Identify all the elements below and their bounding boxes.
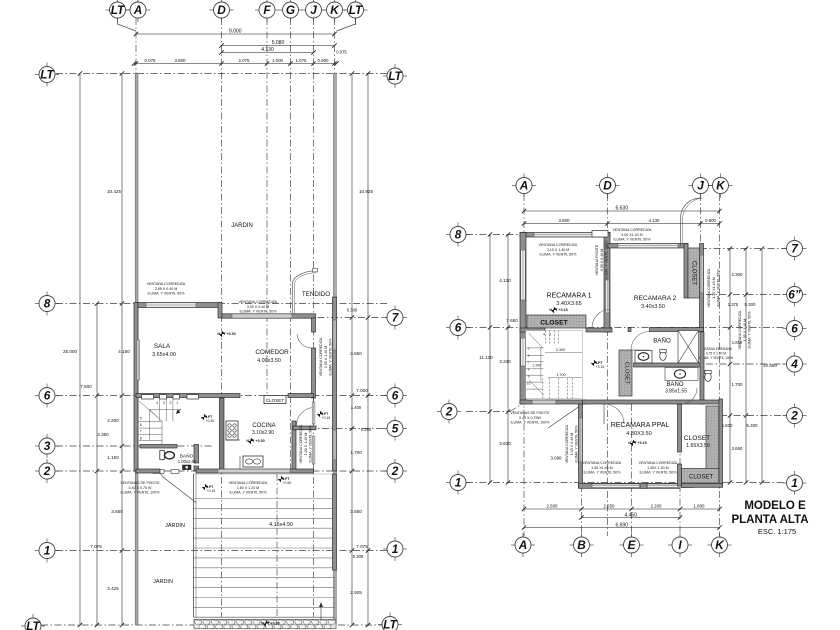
- stairwell west window: [521, 338, 526, 366]
- svg-text:N.PT +0.30: N.PT +0.30: [246, 439, 264, 443]
- svg-text:4: 4: [543, 333, 545, 337]
- axis line 2: [56, 470, 387, 472]
- svg-text:JARDIN: JARDIN: [231, 223, 253, 229]
- svg-text:1: 1: [176, 401, 178, 405]
- kitchen counter: [239, 456, 241, 471]
- axis bubble LT west: [35, 63, 59, 87]
- axis5 stub wall: [293, 426, 316, 430]
- axis bubble I bottom: [668, 533, 692, 557]
- level mark N.PT: [201, 414, 213, 420]
- axis bubble LT southeast: [378, 613, 402, 630]
- high windows over stair: [142, 395, 154, 399]
- svg-text:B: B: [577, 538, 586, 552]
- svg-text:10.650: 10.650: [763, 363, 777, 368]
- axis bubble 1 east (alta): [783, 471, 807, 495]
- svg-text:3.800: 3.800: [175, 58, 187, 63]
- toilet lower bath: [705, 373, 711, 382]
- svg-text:3.630: 3.630: [499, 441, 511, 446]
- axis bubble 2 (alta): [437, 400, 461, 424]
- axis bubble K top: [709, 174, 733, 198]
- balcony arc leader: [681, 198, 701, 246]
- axis line 6 (right plan): [466, 327, 787, 329]
- svg-text:LT: LT: [383, 618, 398, 630]
- axis line B (right plan): [581, 404, 583, 536]
- svg-text:3.650: 3.650: [350, 351, 362, 356]
- axis-6 wall east part: [288, 394, 314, 398]
- axis6 wall c stub: [628, 328, 631, 332]
- axis line 5: [295, 428, 387, 430]
- axis bubble K bottom: [708, 533, 732, 557]
- east window b: [312, 436, 315, 464]
- svg-text:6”: 6”: [788, 288, 801, 302]
- level mark N.PT +3.15: [549, 307, 567, 313]
- svg-text:A: A: [133, 3, 143, 17]
- svg-text:2: 2: [43, 464, 51, 478]
- level mark N.PT +0.30: [246, 438, 264, 444]
- axis bubble 2 east: [383, 459, 407, 483]
- east window 1.35x1.40: [700, 255, 703, 293]
- axis line J: [313, 18, 315, 617]
- svg-text:3.330: 3.330: [499, 359, 511, 364]
- svg-text:CLOSET: CLOSET: [684, 435, 710, 442]
- axis line 1: [56, 550, 387, 552]
- south wall w: [136, 469, 160, 473]
- kitchen sink: [243, 456, 263, 467]
- closet ppal east hatch: [706, 406, 719, 483]
- dimension: [522, 507, 722, 511]
- left dimension lines (right plan): [488, 232, 492, 484]
- axis bubble 6: [35, 384, 59, 408]
- sala window 2.65x0.40: [146, 303, 196, 307]
- svg-text:LT: LT: [40, 68, 55, 82]
- recamara1 north window: [534, 233, 598, 237]
- entry door leaf: [163, 477, 196, 503]
- svg-text:1.700: 1.700: [557, 373, 566, 377]
- svg-text:0.900: 0.900: [318, 58, 330, 63]
- axis bubble 7: [383, 306, 407, 330]
- level mark N.PT: [591, 360, 604, 366]
- axis bubble G: [279, 0, 303, 22]
- right dimension lines (right plan): [728, 246, 732, 484]
- axis bubble 6 (alta): [446, 316, 470, 340]
- axis line 3: [56, 445, 212, 447]
- svg-text:1.400: 1.400: [351, 405, 362, 410]
- svg-text:LT: LT: [349, 3, 364, 17]
- svg-text:8: 8: [455, 228, 462, 242]
- axis6 wall b: [586, 328, 612, 332]
- axis line 2b (right plan): [720, 415, 787, 417]
- svg-text:4: 4: [156, 401, 158, 405]
- svg-text:7.075: 7.075: [90, 544, 102, 549]
- axis bubble 2 east (alta): [783, 404, 807, 428]
- comedor window 3.00x0.40: [232, 314, 292, 318]
- deck east wall: [333, 474, 337, 570]
- axis bubble J: [302, 0, 326, 22]
- cocina west wall (D): [220, 398, 225, 471]
- svg-text:7.000: 7.000: [356, 388, 368, 393]
- wall jog: [218, 303, 222, 319]
- axis line K (right plan): [719, 194, 721, 536]
- axis line LT bottom: [41, 624, 387, 626]
- svg-text:2: 2: [170, 401, 172, 405]
- axis line 2 (right plan): [466, 411, 510, 413]
- level mark N.PT: [202, 484, 214, 490]
- partition window: [606, 280, 610, 313]
- axis bubble LT east: [383, 64, 407, 88]
- axis bubble A: [126, 0, 150, 22]
- tendido arc wall: [292, 271, 316, 315]
- svg-text:0.300: 0.300: [556, 348, 565, 352]
- svg-text:4.130: 4.130: [499, 278, 511, 283]
- south window 1: [592, 484, 640, 488]
- axis line I (right plan): [679, 404, 681, 536]
- svg-text:+0.15: +0.15: [207, 489, 216, 493]
- small wall box above rec2: [592, 231, 608, 238]
- pisote windows south wall: [153, 470, 164, 474]
- axis6 wall c: [650, 328, 704, 332]
- svg-text:2.075: 2.075: [239, 58, 251, 63]
- svg-text:A: A: [519, 179, 529, 193]
- svg-text:0.300: 0.300: [353, 554, 364, 559]
- svg-text:LT: LT: [111, 3, 126, 17]
- axis bubble 8 (alta): [446, 223, 470, 247]
- axis bubble 6 east: [383, 384, 407, 408]
- leader K-LT to lot corner: [337, 18, 356, 31]
- house east wall (J) lower: [312, 348, 316, 398]
- svg-text:7: 7: [140, 430, 142, 434]
- svg-text:MODELO E: MODELO E: [744, 500, 806, 512]
- svg-text:10.425: 10.425: [107, 189, 121, 194]
- hall closet hatch: [619, 350, 632, 396]
- axis line G: [290, 18, 292, 471]
- axis bubble J top: [689, 174, 713, 198]
- svg-text:5.500: 5.500: [722, 423, 734, 428]
- svg-text:N.PT +3.15: N.PT +3.15: [628, 441, 646, 445]
- east window a: [312, 402, 315, 424]
- svg-text:E: E: [628, 538, 637, 552]
- leader LT-A to lot corner: [118, 18, 137, 31]
- svg-text:1: 1: [44, 544, 51, 558]
- south window 1.60x1.20: [218, 469, 290, 472]
- axis bubble 1 east: [383, 537, 407, 561]
- svg-text:ESC. 1:175: ESC. 1:175: [758, 527, 796, 536]
- svg-text:SALA: SALA: [154, 343, 171, 350]
- svg-text:LT: LT: [26, 619, 41, 630]
- svg-text:10: 10: [527, 382, 531, 386]
- svg-text:0.900: 0.900: [705, 218, 717, 223]
- svg-text:K: K: [716, 179, 726, 193]
- level mark N.PT: [317, 411, 329, 417]
- closet ppal west wall b: [678, 464, 682, 486]
- svg-text:BAÑO: BAÑO: [666, 381, 683, 388]
- deck west edge: [193, 474, 195, 617]
- recppal west window: [579, 418, 582, 462]
- door swing rec1: [592, 310, 610, 328]
- closet south exterior wall: [682, 483, 723, 487]
- tendido window b: [333, 430, 336, 460]
- partition rec1/rec2: [604, 233, 610, 333]
- west fence window: [137, 340, 140, 380]
- svg-text:1.700: 1.700: [732, 382, 744, 387]
- svg-text:2: 2: [391, 464, 399, 478]
- svg-text:JARDIN: JARDIN: [165, 523, 185, 529]
- svg-text:PLANTA ALTA: PLANTA ALTA: [731, 514, 808, 526]
- leader axis 2 to wall: [510, 405, 521, 412]
- shower hatch: [678, 331, 699, 364]
- axis line D: [221, 18, 223, 617]
- svg-text:K: K: [330, 3, 340, 17]
- axis line 1 (right plan): [466, 482, 787, 484]
- dimension 5.080: [219, 40, 336, 48]
- lot east wall segment: [333, 297, 337, 471]
- svg-text:1.200: 1.200: [532, 364, 541, 368]
- south wall mullion: [640, 483, 647, 488]
- house east wall (J) upper: [312, 318, 316, 332]
- bath north wall: [140, 445, 177, 449]
- axis bubble 5: [383, 417, 407, 441]
- axis bubble LT: [106, 0, 130, 22]
- svg-text:CLOSET: CLOSET: [540, 320, 568, 327]
- svg-text:6: 6: [140, 423, 142, 427]
- dimension: [522, 221, 722, 225]
- axis bubble 4 (alta): [783, 352, 807, 376]
- terrace deck boards: [194, 474, 335, 617]
- level mark N.PT +3.15: [628, 440, 646, 446]
- axis line E (right plan): [631, 404, 633, 536]
- axis bubble K: [323, 0, 347, 22]
- svg-text:1.075: 1.075: [296, 58, 308, 63]
- svg-text:5.300: 5.300: [747, 423, 759, 428]
- svg-text:2: 2: [445, 405, 453, 419]
- svg-text:N.PT +0.30: N.PT +0.30: [217, 332, 235, 336]
- svg-text:2.200: 2.200: [651, 504, 663, 509]
- svg-text:4.150: 4.150: [118, 349, 130, 354]
- stairwell south wall: [520, 400, 586, 404]
- bath mid wall: [634, 363, 701, 367]
- axis line 8 (right plan): [466, 234, 524, 236]
- svg-text:CLOSET: CLOSET: [266, 398, 285, 403]
- svg-text:11.130: 11.130: [479, 355, 493, 360]
- svg-text:3: 3: [163, 401, 165, 405]
- axis2 wall east part: [583, 400, 721, 404]
- svg-text:8: 8: [44, 297, 51, 311]
- svg-text:25.000: 25.000: [63, 349, 77, 354]
- svg-text:JARDIN: JARDIN: [153, 579, 173, 585]
- axis bubble D: [210, 0, 234, 22]
- svg-text:3.800: 3.800: [559, 218, 571, 223]
- level mark N.PT: [278, 476, 290, 482]
- door swing closet ppal: [682, 388, 698, 404]
- axis line A: [135, 18, 137, 74]
- svg-text:3.40x3.50: 3.40x3.50: [641, 304, 665, 310]
- svg-text:1.150: 1.150: [107, 455, 119, 460]
- svg-text:3.65x4.00: 3.65x4.00: [152, 352, 176, 358]
- axis line 4 (right plan): [706, 363, 787, 365]
- svg-text:+3.15: +3.15: [596, 365, 605, 369]
- east wall mid: [700, 332, 704, 404]
- svg-text:6: 6: [392, 389, 399, 403]
- recamara2 north window: [618, 244, 678, 248]
- axis bubble 3: [35, 434, 59, 458]
- svg-text:0.250: 0.250: [361, 427, 372, 432]
- recppal west wall: [579, 404, 583, 488]
- stove: [226, 421, 238, 440]
- level mark N.PT +0.30: [217, 331, 235, 337]
- svg-text:3.650: 3.650: [111, 509, 123, 514]
- south window 2: [647, 484, 694, 488]
- svg-text:J: J: [310, 3, 317, 17]
- svg-text:5: 5: [140, 417, 142, 421]
- svg-text:G: G: [286, 3, 295, 17]
- svg-text:1: 1: [455, 476, 462, 490]
- recppal south wall: [579, 483, 681, 488]
- svg-text:2.250: 2.250: [604, 504, 616, 509]
- svg-text:+0.90: +0.90: [283, 481, 292, 485]
- svg-text:4.15x4.90: 4.15x4.90: [269, 522, 293, 528]
- door swing recppal: [604, 404, 624, 424]
- svg-text:6: 6: [455, 321, 462, 335]
- bath east wall lower: [194, 466, 199, 471]
- axis line A (right plan): [523, 194, 525, 536]
- deck joint dashed line: [276, 474, 278, 617]
- sala north wall: [136, 303, 221, 308]
- bath east wall upper: [194, 445, 199, 464]
- tendido window a: [333, 320, 336, 350]
- axis line F: [266, 18, 268, 396]
- svg-text:4.30X3.50: 4.30X3.50: [626, 431, 652, 437]
- east wall upper: [700, 244, 704, 333]
- svg-text:3.350: 3.350: [97, 432, 109, 437]
- axis line LT top (left plan): [56, 73, 387, 75]
- axis bubble D top: [596, 174, 620, 198]
- recamara1 north wall: [520, 233, 610, 238]
- svg-text:6.630: 6.630: [615, 206, 628, 212]
- svg-text:RECAMARA 2: RECAMARA 2: [634, 295, 677, 302]
- door leaf stair: [548, 405, 582, 429]
- washbasin lower bath: [665, 368, 698, 381]
- svg-text:4.130: 4.130: [261, 47, 274, 53]
- svg-text:CLOSET: CLOSET: [624, 362, 630, 385]
- svg-text:6.690: 6.690: [615, 522, 628, 528]
- dimension 6.630: [522, 206, 722, 214]
- svg-text:3.85x1.55: 3.85x1.55: [665, 389, 687, 395]
- svg-text:8: 8: [140, 436, 142, 440]
- upper west wall: [520, 233, 526, 405]
- axis-6 wall west part: [136, 394, 240, 398]
- left dimension lines: [78, 71, 82, 627]
- axis bubble 2: [35, 459, 59, 483]
- svg-text:7.500: 7.500: [80, 384, 92, 389]
- axis bubble 1: [35, 539, 59, 563]
- door swing comedor-tendido: [297, 334, 312, 348]
- staircase (ground floor): [139, 399, 181, 444]
- svg-text:+0.15: +0.15: [322, 416, 331, 420]
- toilet (ground bath): [160, 451, 165, 460]
- svg-text:J: J: [697, 179, 704, 193]
- svg-text:TENDIDO: TENDIDO: [302, 291, 330, 298]
- stone path: [194, 619, 336, 629]
- axis line 8: [56, 303, 387, 305]
- level mark N.PT +0.00: [261, 620, 279, 626]
- axis line 7 (right plan): [700, 248, 787, 250]
- axis bubble A top: [512, 174, 536, 198]
- axis bubble 6 east (alta): [783, 317, 807, 341]
- west window: [521, 250, 526, 300]
- svg-text:LT: LT: [388, 69, 403, 83]
- svg-text:9.000: 9.000: [229, 29, 242, 35]
- axis bubble A bottom: [511, 533, 535, 557]
- axis line 6b (right plan): [706, 294, 787, 296]
- svg-text:2.200: 2.200: [107, 418, 119, 423]
- svg-text:CLOSET: CLOSET: [691, 261, 697, 285]
- axis line J (right plan): [700, 194, 702, 248]
- svg-text:3.090: 3.090: [551, 456, 563, 461]
- svg-text:3.425: 3.425: [107, 586, 119, 591]
- svg-text:1.700: 1.700: [350, 450, 362, 455]
- dimension 4.450: [579, 512, 682, 519]
- dimension 4.130: [219, 47, 315, 55]
- svg-text:10.925: 10.925: [359, 189, 373, 194]
- axis bubble 1 (alta): [446, 471, 470, 495]
- svg-text:RECAMARA 1: RECAMARA 1: [546, 293, 591, 300]
- staircase (upper floor): [526, 331, 583, 399]
- svg-text:0.300: 0.300: [347, 307, 358, 312]
- axis bubble E bottom: [620, 533, 644, 557]
- east wall lower: [719, 399, 723, 487]
- toilet upper bath: [660, 352, 666, 361]
- dimension: [132, 61, 339, 65]
- svg-text:K: K: [715, 538, 725, 552]
- closet box label (cocina): [264, 396, 286, 404]
- svg-text:+0.30: +0.30: [206, 419, 215, 423]
- door swing banho top: [631, 332, 650, 351]
- svg-text:F: F: [263, 3, 271, 17]
- south wall e: [196, 469, 314, 473]
- recamara2 north wall: [608, 244, 688, 249]
- svg-text:BAÑO: BAÑO: [653, 338, 671, 345]
- door swing comedor-cocina: [296, 408, 313, 426]
- dimension 9.000: [134, 29, 337, 37]
- closet ppal south hatch: [682, 469, 720, 484]
- svg-text:7.650: 7.650: [506, 318, 518, 323]
- svg-text:4: 4: [790, 357, 798, 371]
- stair arrow to deck: [320, 603, 322, 619]
- axis bubble B bottom: [570, 533, 594, 557]
- lot boundary right wall: [334, 74, 337, 626]
- axis line 6: [56, 395, 387, 397]
- cocina east wall: [292, 421, 296, 471]
- closet1 west wall: [684, 244, 688, 299]
- svg-text:3: 3: [549, 333, 551, 337]
- svg-text:2: 2: [790, 409, 798, 423]
- svg-text:6: 6: [791, 322, 798, 336]
- axis bubble 6-prime: [783, 283, 807, 307]
- svg-text:5.300: 5.300: [745, 302, 757, 307]
- svg-text:6: 6: [44, 389, 51, 403]
- svg-text:COCINA: COCINA: [252, 423, 275, 429]
- axis line 7: [250, 317, 387, 319]
- lot boundary left wall: [135, 74, 138, 626]
- svg-text:5.080: 5.080: [272, 40, 285, 46]
- svg-text:2.600: 2.600: [547, 504, 559, 509]
- svg-text:A: A: [518, 538, 528, 552]
- axis bubble LT right: [344, 0, 368, 22]
- rec2 closet hatch: [688, 248, 700, 298]
- svg-text:COMEDOR: COMEDOR: [255, 349, 289, 356]
- svg-text:N.PT +0.00: N.PT +0.00: [261, 622, 279, 626]
- axis bubble F: [255, 0, 279, 22]
- svg-text:2.300: 2.300: [732, 272, 744, 277]
